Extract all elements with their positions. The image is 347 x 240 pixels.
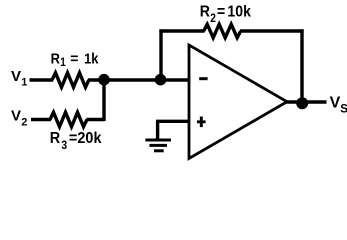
wire op-amp output <box>286 100 327 103</box>
label R1 = 1k <box>51 49 99 69</box>
op-amp non-inverting input plus sign <box>197 117 206 128</box>
label VS <box>330 95 347 116</box>
label V1 <box>11 68 27 89</box>
label R2 = 10k <box>200 2 252 25</box>
svg-text:S: S <box>340 104 347 116</box>
wire feedback right vertical <box>300 29 303 102</box>
wire V1 lead <box>30 78 54 81</box>
label R3 = 20k <box>50 130 102 153</box>
wire V2 branch vertical up to node A <box>102 80 105 121</box>
ground symbol <box>145 140 171 151</box>
svg-text:=: = <box>69 130 78 148</box>
resistor R2 <box>204 24 241 37</box>
svg-text:R: R <box>51 49 60 66</box>
svg-text:3: 3 <box>61 139 67 152</box>
wire feedback top right horizontal <box>240 29 304 32</box>
wire non-inverting input to ground corner <box>156 120 190 123</box>
svg-text:10k: 10k <box>227 2 251 20</box>
op-amp U1 triangle <box>189 45 287 159</box>
svg-text:2: 2 <box>210 12 216 25</box>
svg-text:1: 1 <box>21 76 27 88</box>
svg-text:V: V <box>11 68 21 85</box>
node A junction dot (R1/R3 summing point) <box>98 74 110 86</box>
label V2 <box>11 108 27 129</box>
svg-text:1k: 1k <box>84 49 99 66</box>
op-amp inverting input minus sign <box>199 77 207 80</box>
svg-text:1: 1 <box>60 57 66 70</box>
node B junction dot (inverting input / feedback tap) <box>155 74 167 86</box>
svg-text:20k: 20k <box>77 130 102 148</box>
wire R3 to corner <box>87 118 105 121</box>
wire R1 to op-amp (main inverting node wire) <box>88 78 190 81</box>
svg-text:2: 2 <box>21 116 27 128</box>
wire feedback left vertical <box>159 29 162 80</box>
node C output junction dot <box>296 97 308 109</box>
svg-text:=: = <box>70 49 78 66</box>
resistor R1 <box>52 73 89 87</box>
wire V2 lead <box>31 118 51 121</box>
wire ground stem vertical <box>156 121 159 139</box>
svg-text:V: V <box>11 108 21 125</box>
wire feedback top left horizontal <box>159 29 204 32</box>
svg-text:R: R <box>200 2 210 20</box>
svg-text:R: R <box>50 130 60 148</box>
svg-text:=: = <box>217 2 225 20</box>
svg-text:V: V <box>330 95 341 112</box>
resistor R3 <box>50 112 87 126</box>
